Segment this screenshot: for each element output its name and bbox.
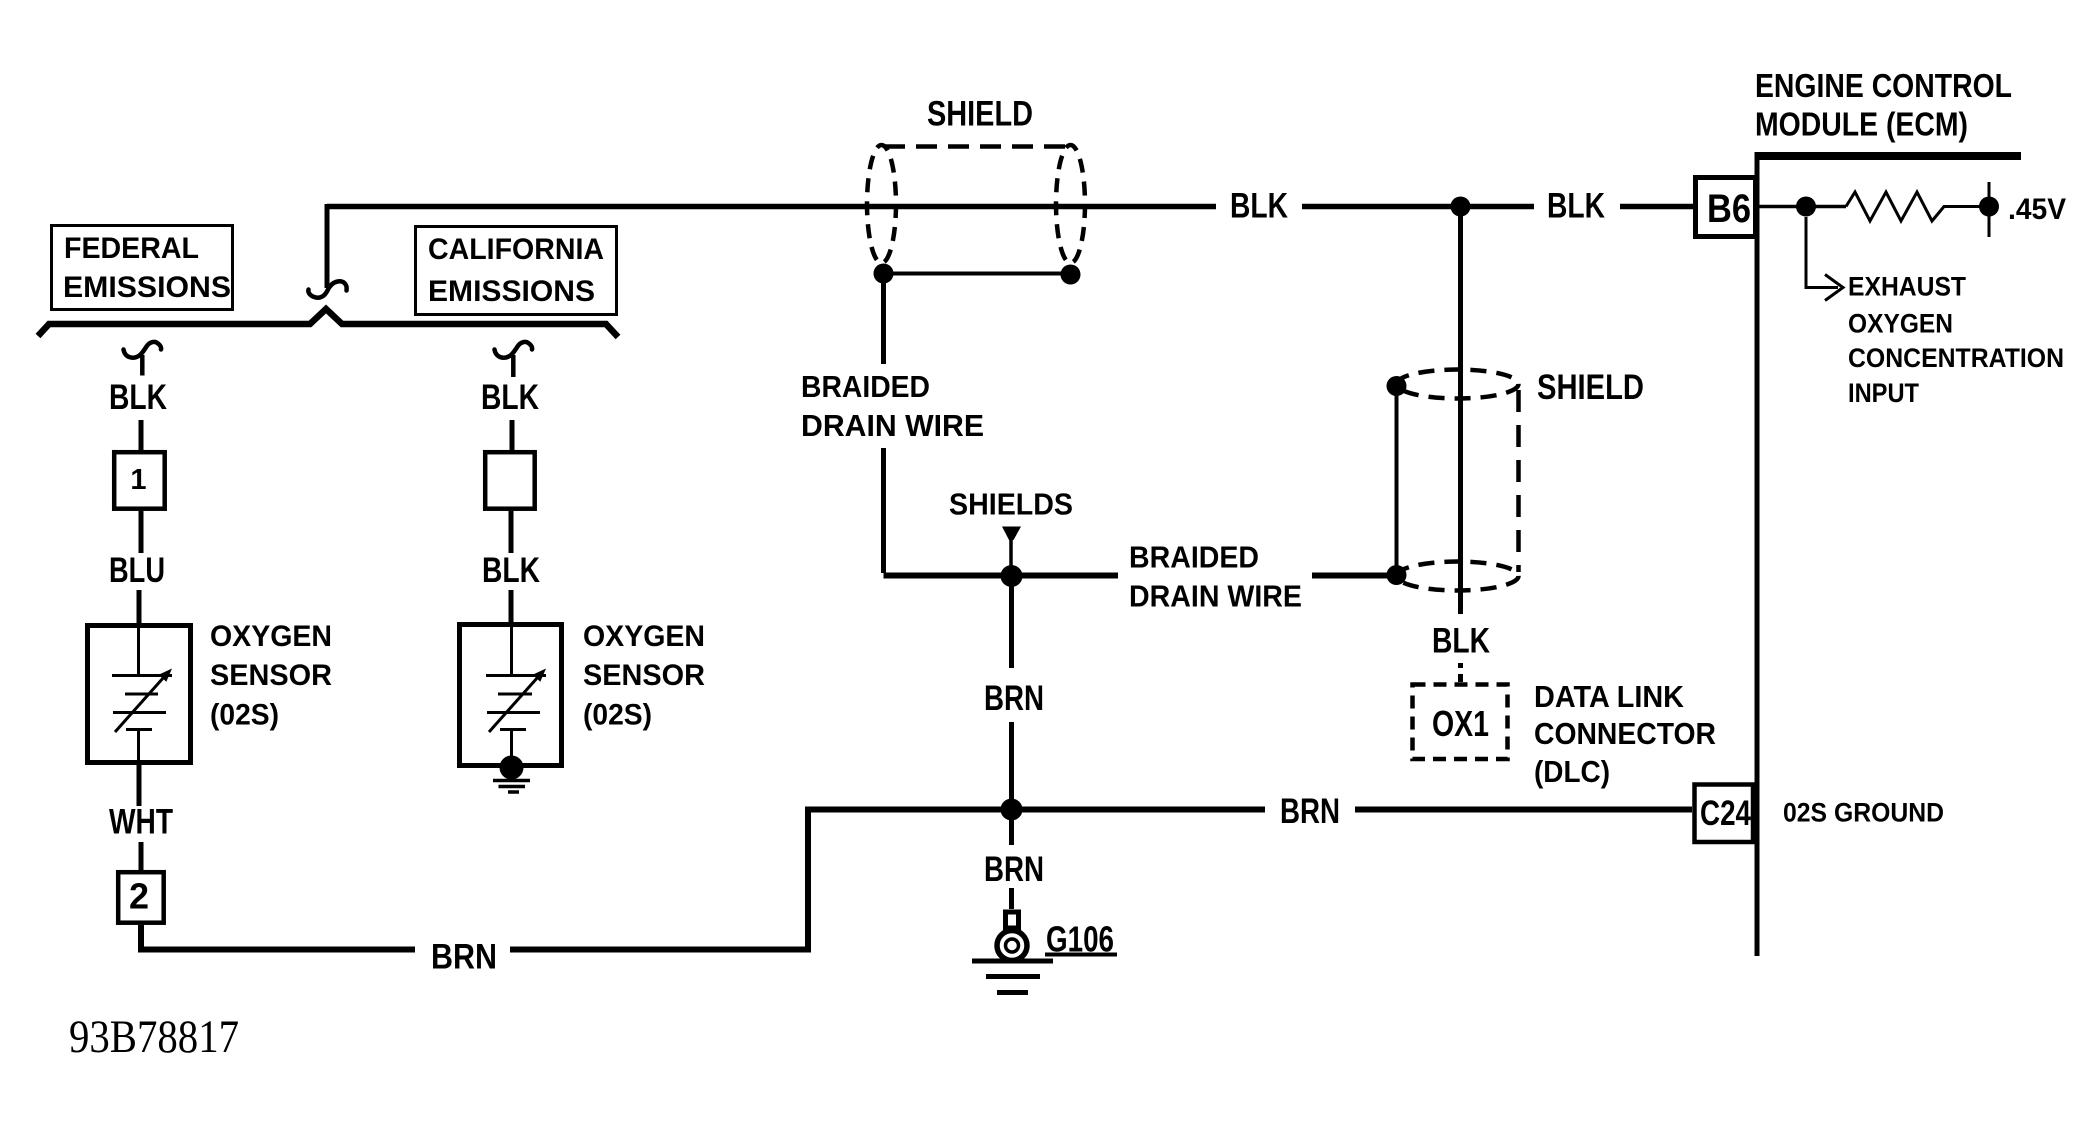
splice curl above federal connector 1: [124, 342, 162, 358]
svg-text:SENSOR: SENSOR: [210, 659, 332, 692]
svg-text:OXYGEN: OXYGEN: [210, 620, 332, 653]
svg-text:OXYGEN: OXYGEN: [1848, 309, 1953, 339]
shield 2 cylinder: top dashed ellipse: [1397, 370, 1519, 399]
svg-text:BRN: BRN: [984, 850, 1044, 889]
svg-text:OXYGEN: OXYGEN: [583, 620, 705, 653]
wire: federal BLK into connector 1: [139, 420, 144, 452]
braided drain wire bar under shield: [884, 272, 1071, 276]
svg-text:(02S): (02S): [583, 699, 652, 732]
svg-text:ENGINE CONTROL: ENGINE CONTROL: [1755, 67, 2012, 104]
shield 2 top dot: [1387, 376, 1407, 396]
svg-text:G106: G106: [1046, 919, 1114, 960]
splice curl on emissions drop wire: [308, 281, 346, 297]
svg-text:CONNECTOR: CONNECTOR: [1534, 716, 1716, 751]
.45V reference tick: [1988, 182, 1991, 237]
svg-text:BLK: BLK: [481, 378, 539, 417]
svg-text:BLK: BLK: [1230, 187, 1288, 226]
CALIFORNIA EMISSIONS box: [416, 227, 617, 315]
svg-text:CONCENTRATION: CONCENTRATION: [1848, 343, 2064, 373]
wire: main BLK wire from emissions split to ECM B6: [327, 204, 1693, 210]
svg-text:SHIELD: SHIELD: [1537, 368, 1644, 407]
sensor 2 arrowhead: [533, 669, 546, 682]
wire: california connector to BLK: [509, 511, 514, 553]
svg-text:BRAIDED: BRAIDED: [1129, 540, 1259, 575]
svg-text:BRN: BRN: [984, 679, 1044, 718]
svg-text:BLK: BLK: [482, 551, 540, 590]
svg-text:EXHAUST: EXHAUST: [1848, 272, 1966, 302]
shield cylinder around main wire: top dashed line: [884, 144, 1068, 149]
braided drain wire vertical: [881, 274, 886, 574]
svg-text:1: 1: [130, 464, 146, 496]
braided drain wire horizontal run to second shield: [884, 573, 1397, 579]
svg-text:FEDERAL: FEDERAL: [64, 232, 199, 265]
resistor right node dot (.45V): [1979, 197, 1999, 217]
svg-text:WHT: WHT: [109, 803, 173, 842]
connector 2 box: [118, 872, 164, 923]
svg-text:(02S): (02S): [210, 699, 279, 732]
svg-text:93B78817: 93B78817: [69, 1011, 239, 1063]
oxygen sensor 2 cell symbol: [486, 625, 546, 757]
G106 label underline: [1045, 953, 1117, 957]
svg-text:BRAIDED: BRAIDED: [801, 369, 930, 404]
shield 2 cylinder: bottom dashed ellipse: [1397, 562, 1519, 591]
connector 1 box: [114, 452, 165, 509]
wire: california BLK into connector: [510, 420, 515, 452]
svg-text:BRN: BRN: [1280, 792, 1340, 831]
splice curl above california connector: [495, 342, 533, 358]
svg-text:EMISSIONS: EMISSIONS: [428, 275, 595, 308]
ECM module left edge: [1755, 152, 1760, 956]
shield cylinder left dashed ellipse: [867, 145, 896, 263]
shields junction dot: [1001, 565, 1023, 587]
wire: BLK into oxygen sensor 2: [509, 590, 514, 625]
svg-text:(DLC): (DLC): [1534, 754, 1610, 789]
svg-text:INPUT: INPUT: [1848, 378, 1919, 408]
svg-text:BRN: BRN: [431, 938, 497, 977]
svg-text:BLU: BLU: [109, 551, 165, 590]
wire: connector 1 to BLU: [139, 511, 144, 553]
wire: vertical drop to emissions brace: [325, 204, 330, 288]
ECM module top edge: [1757, 152, 2021, 160]
resistor left node dot: [1796, 197, 1816, 217]
wire: BLK from main wire junction down through shield 2: [1458, 207, 1463, 615]
shield cylinder right dashed ellipse: [1056, 145, 1085, 263]
oxygen sensor 1 box: [88, 626, 191, 763]
svg-text:DRAIN WIRE: DRAIN WIRE: [801, 408, 984, 443]
svg-text:.45V: .45V: [2008, 193, 2066, 226]
oxygen sensor 2 case ground dot: [500, 756, 524, 780]
svg-text:OX1: OX1: [1432, 703, 1489, 744]
shield 2 bottom dot: [1387, 565, 1407, 585]
oxygen sensor 2 box: [460, 625, 562, 766]
dashed BLK stub into OX1: [1458, 663, 1463, 682]
OX1 data link connector dashed box: [1413, 685, 1508, 760]
svg-text:DRAIN WIRE: DRAIN WIRE: [1129, 579, 1302, 614]
B6 terminal box: [1696, 178, 1756, 237]
svg-text:SENSOR: SENSOR: [583, 659, 705, 692]
drain bar right dot: [1061, 265, 1081, 285]
junction dot on main BLK wire: [1451, 197, 1471, 217]
wire: BRN from shields junction down: [1009, 576, 1014, 909]
svg-text:2: 2: [129, 876, 149, 917]
svg-text:CALIFORNIA: CALIFORNIA: [428, 233, 604, 266]
SHIELDS pointer triangle: [1002, 527, 1021, 541]
svg-text:MODULE (ECM): MODULE (ECM): [1755, 106, 1968, 143]
G106 ring terminal circle: [997, 931, 1027, 961]
G106 ground lines: [972, 961, 1053, 993]
svg-text:B6: B6: [1707, 187, 1751, 231]
svg-text:SHIELD: SHIELD: [927, 95, 1033, 134]
wire: WHT into connector 2: [139, 842, 144, 872]
svg-text:C24: C24: [1700, 794, 1751, 833]
BRN junction dot: [1001, 799, 1023, 821]
sensor 1 arrowhead: [159, 669, 172, 682]
shield 2 cylinder: right dashed side: [1516, 390, 1521, 572]
wire: B6 to pullup resistor node: [1758, 205, 1846, 209]
wire: BLU into oxygen sensor 1: [137, 590, 142, 626]
svg-text:BLK: BLK: [1547, 187, 1605, 226]
svg-text:BLK: BLK: [1432, 622, 1490, 661]
svg-text:SHIELDS: SHIELDS: [949, 487, 1073, 522]
FEDERAL EMISSIONS box: [52, 226, 233, 310]
G106 ring terminal square: [1006, 912, 1019, 928]
wire: connector 2 down to BRN run: [141, 810, 1692, 953]
svg-text:BLK: BLK: [109, 378, 167, 417]
resistor zigzag: [1846, 192, 1989, 221]
svg-text:DATA LINK: DATA LINK: [1534, 679, 1685, 714]
brace under FEDERAL and CALIFORNIA EMISSIONS: [38, 309, 618, 337]
svg-text:EMISSIONS: EMISSIONS: [63, 271, 231, 304]
wire: oxygen sensor 1 to WHT: [137, 765, 142, 806]
california connector box: [485, 452, 535, 509]
C24 terminal box: [1695, 785, 1754, 843]
oxygen sensor 1 cell symbol: [112, 626, 172, 764]
sensor 2 ground lines: [493, 781, 530, 793]
exhaust oxygen input arrow: [1806, 217, 1838, 288]
svg-text:02S GROUND: 02S GROUND: [1783, 798, 1944, 828]
drain bar left dot: [874, 264, 894, 284]
shield 2 drain wire left side: [1395, 386, 1399, 575]
